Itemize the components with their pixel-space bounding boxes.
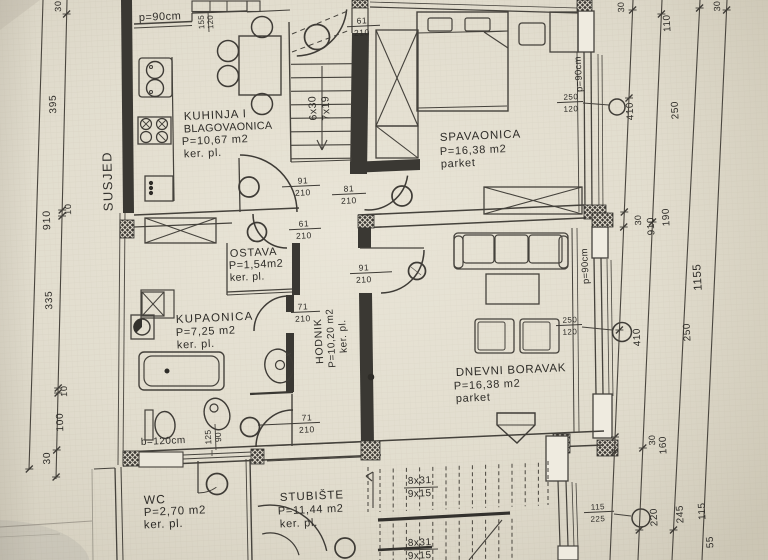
wall living right bottom pillar <box>593 394 612 438</box>
svg-text:210: 210 <box>341 195 357 206</box>
door ostava knob <box>248 223 267 242</box>
door living knob <box>409 263 426 280</box>
dim label 71/210 wc door <box>258 422 320 425</box>
hatch living right bottom corner <box>597 440 618 456</box>
wall living left upper segment <box>358 228 371 248</box>
svg-text:210: 210 <box>295 187 311 198</box>
dim chain line left inner <box>56 0 67 479</box>
bedroom desk <box>550 12 578 52</box>
svg-text:100: 100 <box>55 412 66 431</box>
wardrobe tall lower cell <box>376 126 418 158</box>
svg-text:71: 71 <box>301 412 312 422</box>
sofa cushion 3 <box>529 235 562 263</box>
svg-text:HODNIK: HODNIK <box>312 318 326 364</box>
hatch living right wall y213 <box>592 213 613 227</box>
wall living east inner face <box>572 228 574 432</box>
svg-text:210: 210 <box>296 230 312 241</box>
svg-text:125: 125 <box>203 429 214 444</box>
wall ostava right (thick) <box>292 243 300 295</box>
washing machine xbox <box>142 292 164 316</box>
svg-text:91: 91 <box>297 175 308 185</box>
hatch bottom wall x553 <box>553 434 570 453</box>
svg-text:30: 30 <box>616 2 627 13</box>
hatch bottom wall x252 <box>251 449 264 464</box>
svg-text:6x30: 6x30 <box>306 95 319 120</box>
dishwasher dots <box>149 181 152 184</box>
door kitchen arc 91 <box>240 155 297 212</box>
wall living top (hollow thick) <box>358 205 584 215</box>
stairs handrail <box>378 513 510 520</box>
svg-text:p=90cm: p=90cm <box>573 56 586 92</box>
svg-text:190: 190 <box>661 208 673 227</box>
svg-text:WC: WC <box>144 492 167 507</box>
window dim 250/120 living <box>556 325 582 326</box>
hatch bottom wall x361 <box>361 441 380 460</box>
dim label 91/210 kitchen door <box>282 185 320 187</box>
wall bathroom right upper <box>286 295 294 312</box>
door stubiste entry knob <box>335 538 355 558</box>
stove burner 2 <box>157 119 168 130</box>
paper shade top-left corner <box>0 0 40 30</box>
wc door leaf <box>197 461 199 493</box>
wall ostava bottom <box>227 289 292 292</box>
wc window sill box <box>139 452 183 467</box>
svg-text:ker. pl.: ker. pl. <box>144 518 184 532</box>
svg-text:210: 210 <box>299 424 315 435</box>
sofa cushion 2 <box>495 235 528 263</box>
svg-text:120: 120 <box>562 327 577 337</box>
leader bedroom window <box>583 103 609 105</box>
dim tick left y210 <box>59 207 66 214</box>
bedroom window east <box>584 52 585 212</box>
bed pillow left <box>428 18 452 31</box>
svg-text:parket: parket <box>441 157 476 171</box>
svg-text:410: 410 <box>625 102 637 121</box>
dining chair top <box>252 17 273 38</box>
svg-text:P=1,54m2: P=1,54m2 <box>229 258 284 272</box>
dim label 61/210 ostava door <box>289 228 321 229</box>
corner basin dark wedge <box>133 319 142 333</box>
window dim 250/120 bedroom <box>557 102 583 103</box>
wall stubiste right pillar <box>546 436 568 481</box>
door wc knob <box>241 418 260 437</box>
svg-text:250: 250 <box>682 323 694 342</box>
dim tick 910 bottom <box>26 466 33 473</box>
svg-text:115: 115 <box>591 502 606 512</box>
svg-text:245: 245 <box>675 505 687 524</box>
dim tick left y14 <box>63 11 70 18</box>
svg-text:250: 250 <box>670 101 682 120</box>
stairs lower diagonal <box>469 520 502 560</box>
wc window in bottom wall <box>183 452 252 455</box>
sofa armrest left <box>454 236 463 268</box>
dim ticks L1 <box>629 7 636 14</box>
svg-text:10: 10 <box>59 385 69 397</box>
svg-text:210: 210 <box>295 313 311 324</box>
dim label 81/210 bedroom door <box>332 193 366 194</box>
bathroom corner basin <box>131 315 154 339</box>
kitchen sink bowl upper <box>147 62 164 79</box>
susjed boundary double line <box>118 213 120 465</box>
door bedroom arc 81 <box>365 176 408 210</box>
svg-text:8x31: 8x31 <box>408 537 432 549</box>
kitchen sink unit <box>139 58 172 97</box>
svg-text:parket: parket <box>456 391 491 405</box>
dining chair left upper <box>218 41 239 62</box>
sofa armrest right <box>559 236 568 268</box>
kitchen counter edge <box>172 57 174 201</box>
shaft xbox below kitchen <box>145 218 216 243</box>
wall living right window pillar top <box>592 227 608 258</box>
wardrobe wide xbox <box>484 187 582 214</box>
svg-text:30: 30 <box>53 0 63 12</box>
bathroom bidet <box>200 395 234 433</box>
door bedroom knob <box>392 186 412 206</box>
wall kitchen bottom top face <box>134 208 299 215</box>
stove burner 3 <box>141 132 152 143</box>
bed fold <box>484 32 508 48</box>
svg-text:115: 115 <box>697 502 709 520</box>
door stubiste entry arc <box>258 505 327 551</box>
wall stairwell right (thick) <box>350 33 369 174</box>
wc door arc <box>198 487 216 493</box>
kitchen upper cabinets row <box>192 1 247 12</box>
bed foot curve <box>418 106 507 108</box>
bed blanket line <box>417 31 508 33</box>
svg-text:71: 71 <box>297 301 308 311</box>
door wc arc 71 <box>256 410 293 447</box>
door living arc 91 <box>381 250 424 293</box>
stairs upper dashed above-cut <box>292 10 350 34</box>
dim chain right L1 <box>610 0 633 560</box>
paper fold lines bottom-left <box>0 521 92 527</box>
stairs upper landing line <box>291 160 352 162</box>
svg-text:910: 910 <box>646 217 658 236</box>
window dim 115/225 stubiste <box>584 511 614 512</box>
svg-text:9x15: 9x15 <box>408 488 432 500</box>
dim label 61/210 stair door <box>347 25 380 27</box>
dining chair bottom <box>252 94 273 115</box>
wall wc right vertical <box>250 459 252 560</box>
svg-text:410: 410 <box>632 328 644 347</box>
paper shade left band <box>0 0 36 560</box>
bed <box>417 12 508 111</box>
circle stubiste window <box>632 509 650 527</box>
paper shadow bottom-left <box>0 520 90 560</box>
dining table <box>239 36 281 95</box>
svg-text:120: 120 <box>563 104 578 114</box>
svg-text:910: 910 <box>41 210 54 230</box>
wall wc left <box>115 468 117 560</box>
dim ticks L2 <box>658 11 665 18</box>
armchair 1 <box>475 319 514 353</box>
svg-text:81: 81 <box>343 183 354 193</box>
leader living window <box>582 327 612 330</box>
svg-text:p=90cm: p=90cm <box>579 248 592 284</box>
wall kitchen top window line <box>134 22 192 25</box>
stairs lower upper flight treads <box>379 469 381 512</box>
coffee table <box>486 274 539 304</box>
wall wc nook top <box>250 392 293 394</box>
wc door knob <box>207 474 228 495</box>
svg-text:30: 30 <box>712 1 723 12</box>
bed pillow right <box>465 18 490 31</box>
wall bottom main bottom face left <box>123 455 381 466</box>
wall bedroom east inner face <box>577 52 579 212</box>
svg-text:250: 250 <box>563 92 578 102</box>
tv stand <box>497 413 535 443</box>
dim chain right L4 <box>702 0 727 560</box>
sofa back <box>454 233 568 269</box>
dim tick left y388 <box>55 385 62 392</box>
hatch bedroom wall top right <box>577 0 592 11</box>
dim label 91/210 living door <box>350 272 392 274</box>
svg-text:ker. pl.: ker. pl. <box>230 270 265 284</box>
wall living left lower segment <box>359 293 374 445</box>
svg-text:10: 10 <box>63 203 73 215</box>
svg-text:1155: 1155 <box>691 263 704 291</box>
living window east <box>594 258 596 394</box>
dim chain right L2 <box>638 0 662 560</box>
dim label 71/210 bathroom door <box>291 311 320 312</box>
circle 410 living <box>613 323 632 342</box>
dim line 910 outer left <box>29 0 43 470</box>
door ostava arc 61 <box>253 214 287 248</box>
svg-text:SUSJED: SUSJED <box>99 151 116 212</box>
svg-text:8x31: 8x31 <box>408 475 432 487</box>
stubiste window east <box>558 481 560 546</box>
stairs lower flight boundary dashed <box>367 467 369 512</box>
wall ostava left thin <box>226 243 228 295</box>
door stair-landing arc 61 <box>297 9 347 56</box>
dot on living wall <box>368 374 374 380</box>
stairs upper arrow <box>321 66 323 150</box>
kitchen stove <box>138 117 171 144</box>
dim tick left y477 <box>53 474 60 481</box>
svg-text:210: 210 <box>356 274 372 285</box>
svg-text:160: 160 <box>658 436 670 455</box>
svg-text:30: 30 <box>647 435 658 446</box>
wall bottom main bottom face right <box>553 445 604 447</box>
stairs upper treads <box>291 63 352 66</box>
svg-text:91: 91 <box>358 262 369 272</box>
stairs lower second rail <box>378 547 432 550</box>
bathtub inner <box>144 356 219 386</box>
wall stair left thin <box>289 22 291 162</box>
wall bathroom right lower <box>286 333 294 392</box>
bathtub outer <box>139 352 224 390</box>
svg-text:p=90cm: p=90cm <box>139 10 182 24</box>
dim chain right L3 <box>672 0 700 560</box>
svg-text:250: 250 <box>562 315 577 325</box>
stove burner 1 <box>141 119 152 130</box>
svg-text:90: 90 <box>213 432 224 442</box>
svg-text:120: 120 <box>206 15 216 30</box>
svg-text:ker. pl.: ker. pl. <box>337 319 350 353</box>
svg-text:110: 110 <box>662 14 674 32</box>
bathroom wall sink <box>261 346 296 386</box>
dim tick L4 <box>723 7 730 14</box>
svg-text:395: 395 <box>48 94 59 113</box>
washing machine outer <box>141 290 174 318</box>
kitchen dishwasher <box>145 176 173 201</box>
wall wc nook right <box>291 394 293 446</box>
svg-text:61: 61 <box>298 218 309 228</box>
door stair-landing knob <box>305 25 330 50</box>
hatch living top wall left end <box>358 215 374 228</box>
hatch stairwell wall top <box>352 0 368 8</box>
svg-text:30: 30 <box>633 215 644 226</box>
bathroom toilet bowl <box>154 411 176 439</box>
wall bedroom top thin <box>370 7 578 13</box>
dining chair left lower <box>218 66 239 87</box>
bathroom toilet tank <box>145 410 153 440</box>
stairs lower arrow <box>372 472 374 508</box>
wardrobe tall xbox <box>376 30 418 126</box>
hatch living top wall right end <box>584 205 606 219</box>
wall bottom main top face <box>123 431 604 452</box>
svg-text:335: 335 <box>44 290 55 309</box>
stairs lower lower flight treads <box>379 524 381 560</box>
svg-text:55: 55 <box>705 536 717 549</box>
paper edge below wc <box>92 469 93 560</box>
nightstand <box>519 23 545 45</box>
wall stubiste below window <box>558 546 578 560</box>
paper shade right band <box>640 0 768 560</box>
hatch bottom wall left end <box>123 451 139 466</box>
dim tick left y450 <box>53 447 60 454</box>
stove burner 4 <box>157 132 168 143</box>
door kitchen knob circle <box>239 177 259 197</box>
svg-text:ker. pl.: ker. pl. <box>177 338 216 352</box>
corner basin circle <box>134 319 150 335</box>
wall bedroom/stair bottom chunk <box>350 159 420 173</box>
circle 410 bedroom <box>609 99 625 115</box>
armchair 2 <box>520 319 559 353</box>
wall kitchen bottom lower face <box>134 223 232 227</box>
svg-text:30: 30 <box>42 452 53 465</box>
wall kitchen top right portion <box>192 11 247 13</box>
dim ticks L3 <box>696 5 703 12</box>
svg-text:210: 210 <box>354 27 370 38</box>
sofa cushion 1 <box>463 235 494 263</box>
wall kitchen left (thick) <box>121 0 134 213</box>
svg-text:b=120cm: b=120cm <box>141 435 186 448</box>
hatch kitchen bottom wall left <box>120 220 134 238</box>
bathtub drain <box>165 369 169 373</box>
leader stubiste window <box>614 514 631 516</box>
wall hodnik bottom hollow <box>267 442 361 446</box>
wall bedroom right top pillar <box>578 11 594 52</box>
wall top kitchen-stair link <box>247 10 290 12</box>
door bathroom arc 71 <box>254 296 289 331</box>
svg-text:9x15: 9x15 <box>408 550 432 560</box>
svg-text:61: 61 <box>356 15 367 25</box>
svg-text:ker. pl.: ker. pl. <box>184 147 223 161</box>
svg-text:7x19: 7x19 <box>319 95 332 120</box>
svg-text:220: 220 <box>649 508 661 527</box>
svg-text:225: 225 <box>590 514 605 524</box>
svg-text:ker. pl.: ker. pl. <box>280 517 319 531</box>
kitchen sink bowl lower <box>147 80 164 97</box>
